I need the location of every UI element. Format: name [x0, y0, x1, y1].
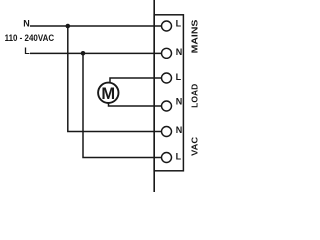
- wire L branch to VAC L: [83, 53, 161, 157]
- terminal box: [154, 15, 183, 171]
- svg-text:N: N: [176, 47, 183, 57]
- motor M1: [98, 83, 118, 103]
- svg-text:N: N: [176, 125, 183, 135]
- svg-text:N: N: [176, 97, 183, 107]
- terminal 4 N LOAD: [162, 101, 172, 111]
- svg-text:M: M: [101, 85, 115, 103]
- terminal 3 L LOAD: [162, 73, 172, 83]
- wire N branch to VAC N: [68, 26, 162, 132]
- wire motor top to LOAD L: [110, 78, 161, 83]
- svg-text:N: N: [23, 18, 30, 28]
- svg-text:L: L: [24, 46, 30, 56]
- device edge line: [153, 0, 155, 192]
- svg-text:110 - 240VAC: 110 - 240VAC: [5, 33, 55, 43]
- svg-text:L: L: [176, 19, 182, 29]
- wire N mains: [30, 25, 161, 27]
- svg-text:VAC: VAC: [190, 136, 200, 156]
- terminal 2 N MAINS: [162, 48, 172, 58]
- node L junction: [81, 51, 86, 56]
- node N junction: [66, 24, 71, 29]
- wire motor bottom to LOAD N: [109, 103, 162, 106]
- terminal 5 N VAC: [162, 127, 172, 137]
- svg-text:L: L: [176, 152, 182, 162]
- terminal 1 L MAINS: [162, 21, 172, 31]
- svg-text:L: L: [176, 72, 182, 82]
- terminal 6 L VAC: [162, 153, 172, 163]
- wire L mains: [30, 52, 161, 54]
- svg-text:MAINS: MAINS: [190, 20, 200, 54]
- svg-text:LOAD: LOAD: [190, 84, 200, 108]
